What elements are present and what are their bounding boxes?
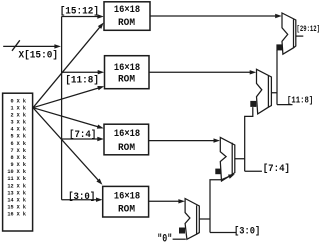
svg-text:16×18: 16×18 [114, 129, 140, 140]
svg-text:15: 15 [7, 205, 13, 211]
svg-text:12: 12 [7, 183, 13, 189]
adder A1 [282, 13, 296, 54]
svg-text:7: 7 [10, 148, 13, 154]
svg-text:[15:12]: [15:12] [60, 6, 99, 18]
svg-text:1: 1 [10, 105, 13, 111]
svg-text:0: 0 [10, 98, 13, 104]
svg-text:3: 3 [10, 120, 13, 126]
wire fan to ROM2 [33, 88, 99, 108]
arrowhead tap ROM4 [96, 198, 103, 202]
svg-text:16×18: 16×18 [114, 63, 140, 74]
svg-text:X k: X k [17, 141, 26, 147]
svg-text:[29:12]: [29:12] [297, 25, 320, 34]
arrowhead X into bus [54, 44, 61, 48]
svg-text:[3:0]: [3:0] [68, 191, 95, 203]
wire tap [11:8] [62, 71, 100, 73]
wire ROM2 output to adder A2 [149, 71, 252, 73]
arrowhead tap ROM2 [98, 70, 105, 74]
svg-text:X k: X k [17, 190, 26, 196]
wire zero constant [173, 238, 186, 240]
wire fan to ROM3 [33, 108, 98, 127]
arrowhead tap ROM1 [97, 14, 104, 18]
arrowhead ROM1 to A1 [275, 14, 282, 18]
wire tap [15:12] [62, 16, 99, 18]
adder A4 [185, 199, 199, 240]
svg-text:X k: X k [17, 113, 26, 119]
wire bus A3 to A2 [235, 107, 262, 171]
svg-text:6: 6 [10, 141, 13, 147]
svg-text:9: 9 [10, 162, 13, 168]
adder A3 [220, 137, 235, 181]
wire A1 sum output [296, 35, 304, 37]
wire ROM1 output to adder A1 [150, 15, 277, 17]
svg-text:X k: X k [17, 127, 26, 133]
svg-text:10: 10 [7, 169, 13, 175]
register tap A1 [276, 44, 282, 50]
svg-text:"0": "0" [157, 233, 172, 245]
wire bus A4 to A3 [199, 176, 236, 233]
svg-text:16: 16 [7, 212, 13, 218]
arrowhead tap ROM3 [97, 137, 104, 141]
svg-text:16×18: 16×18 [114, 191, 140, 202]
ROM U3 [104, 124, 149, 155]
svg-text:11: 11 [7, 176, 13, 182]
wire tap [7:4] [62, 138, 99, 140]
svg-text:[11:8]: [11:8] [65, 75, 99, 87]
svg-text:X k: X k [17, 148, 26, 154]
wire X input line [3, 45, 56, 47]
wire tap [3:0] [62, 199, 98, 201]
arrowhead ROM3 to A3 [214, 138, 221, 142]
wire fan to ROM1 [33, 27, 100, 108]
svg-text:[7:4]: [7:4] [263, 163, 290, 175]
register tap A3 [215, 169, 221, 175]
svg-text:[7:4]: [7:4] [69, 129, 96, 141]
svg-text:ROM: ROM [118, 75, 135, 86]
ROM U4 [103, 186, 149, 217]
adder A2 [257, 69, 272, 114]
arrowhead fan ROM2 [97, 84, 104, 90]
svg-text:ROM: ROM [118, 18, 135, 29]
svg-text:8: 8 [10, 155, 13, 161]
svg-text:ROM: ROM [118, 204, 135, 215]
svg-text:13: 13 [7, 190, 13, 196]
ROM U2 [105, 56, 150, 89]
svg-text:X k: X k [17, 105, 26, 111]
svg-text:2: 2 [10, 113, 13, 119]
svg-text:X k: X k [17, 212, 26, 218]
svg-text:X k: X k [17, 205, 26, 211]
svg-text:X k: X k [17, 198, 26, 204]
svg-text:X[15:0]: X[15:0] [19, 50, 59, 62]
svg-text:[11:8]: [11:8] [287, 94, 313, 105]
arrowhead fan ROM3 [97, 124, 104, 130]
arrowhead ROM4 to A4 [178, 199, 185, 203]
wire ROM4 output to adder A4 [149, 200, 180, 202]
ROM U1 [104, 2, 150, 31]
lookup table box [3, 93, 33, 231]
wire fan to ROM4 [33, 108, 99, 181]
svg-text:16×18: 16×18 [114, 5, 140, 16]
svg-text:X k: X k [17, 98, 26, 104]
svg-text:X k: X k [17, 169, 26, 175]
svg-text:X k: X k [17, 120, 26, 126]
address bus vertical [61, 17, 63, 200]
svg-text:X k: X k [17, 162, 26, 168]
arrowhead fan ROM1 [98, 21, 106, 29]
svg-text:X k: X k [17, 176, 26, 182]
wire bus A2 to A1 carry [271, 50, 292, 105]
slash bus-width mark [12, 40, 20, 51]
register tap A2 [250, 101, 256, 107]
lookup table rows [7, 98, 26, 217]
arrowhead fan ROM4 [96, 178, 104, 186]
svg-text:X k: X k [17, 134, 26, 140]
arrowhead ROM2 to A2 [250, 70, 257, 74]
svg-text:X k: X k [17, 183, 26, 189]
svg-text:14: 14 [7, 198, 13, 204]
svg-text:X k: X k [17, 155, 26, 161]
wire ROM3 output to adder A3 [149, 140, 216, 142]
svg-text:[3:0]: [3:0] [234, 226, 260, 238]
register tap A4 [179, 228, 185, 234]
svg-text:4: 4 [10, 127, 13, 133]
svg-text:ROM: ROM [118, 143, 135, 154]
svg-text:5: 5 [10, 134, 13, 140]
arrowhead carry into A3 bottom [228, 172, 236, 179]
